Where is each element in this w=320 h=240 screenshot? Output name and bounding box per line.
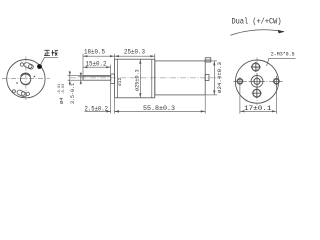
bottom dim extension gearbox face (114, 98, 116, 113)
left view upper screw hole (20, 63, 23, 66)
dim 15 extension line boss face (110, 65, 112, 74)
dim line 2.5 right stub (115, 110, 120, 112)
rotation direction arc arrow (231, 30, 285, 35)
bottom dim extension motor rear (204, 95, 206, 113)
left view gearbox outline circle (7, 59, 45, 97)
dim line 15 (83, 66, 111, 68)
dim line flat 3.5 (80, 73, 82, 85)
arrows dim 17 (240, 110, 277, 112)
arrows dim 2.5 (107, 110, 119, 112)
bottom dim extension boss (110, 84, 112, 114)
left view upper slot (23, 62, 34, 70)
right view left M3 hole (237, 79, 242, 84)
right view bottom bolt circle (253, 89, 261, 97)
left view small dot lower left (16, 82, 18, 84)
dim 17 extension lines (239, 85, 241, 114)
right view right M3 cross (272, 76, 280, 87)
dim 25 extension line motor face (154, 54, 156, 61)
left view centerline horizontal (2, 78, 50, 80)
right view centerline vertical (256, 58, 258, 106)
svg-text:25±0.3: 25±0.3 (124, 49, 145, 56)
dim line phi4 (69, 71, 71, 86)
right view centerline horizontal (233, 80, 284, 82)
shaft flat line (83, 75, 111, 77)
left view lower right screw hole (26, 92, 29, 95)
svg-text:3.5-0.1: 3.5-0.1 (70, 83, 76, 104)
boss outline (111, 74, 115, 84)
arrows phi24.4 (213, 61, 215, 95)
right view right M3 hole (274, 79, 279, 84)
svg-text:ø4: ø4 (58, 97, 65, 104)
left view small dot upper right (34, 76, 36, 78)
dim 18 extension line shaft tip (82, 54, 84, 75)
right view top bolt cross (251, 62, 261, 72)
svg-text:ø24.4±0.3: ø24.4±0.3 (217, 62, 223, 93)
right view center shaft inner circle (254, 78, 260, 84)
dim line 18 (83, 55, 115, 57)
gearbox front plate line (117, 59, 119, 98)
right view center shaft outer circle (251, 75, 263, 87)
dim phi25 line inside gearbox (139, 59, 141, 98)
svg-text:ø25±0.3: ø25±0.3 (135, 69, 141, 91)
motor terminal tab mid line (205, 59, 211, 61)
motor rear boss (205, 75, 209, 81)
svg-text:-0.03: -0.03 (62, 84, 66, 95)
arrows phi4 (69, 72, 71, 85)
left view lower slot (16, 89, 27, 97)
right view center cross (249, 73, 265, 89)
left view upper slot circle (28, 65, 32, 69)
dim 18 extension line gearbox face (114, 54, 116, 59)
arrows dim 55.8 (115, 110, 206, 112)
left view lower screw hole (12, 90, 15, 93)
svg-text:55.8±0.3: 55.8±0.3 (143, 105, 175, 112)
left view lower slot circle (21, 92, 25, 96)
svg-text:2.5±0.2: 2.5±0.2 (85, 105, 109, 112)
dim line 2.5 leader (85, 110, 111, 112)
svg-text:17±0.1: 17±0.1 (244, 105, 272, 112)
left view center hub circle (20, 74, 30, 84)
label 2-M3 leader (267, 58, 296, 66)
positive terminal dot (37, 64, 42, 69)
svg-text:15±0.2: 15±0.2 (86, 61, 107, 68)
dim line 17 (240, 110, 277, 112)
arrows phi25 (139, 59, 141, 98)
motor terminal tab (205, 58, 211, 62)
right view top bolt circle (252, 63, 260, 71)
arrows flat 3.5 (80, 73, 82, 84)
dim phi4 extension lines (68, 75, 83, 77)
flat extension line (78, 75, 82, 77)
left view centerline vertical (25, 57, 27, 101)
arrows top dims (83, 55, 155, 57)
side view centerline (70, 77, 222, 79)
dim line 55.8 (115, 110, 206, 112)
svg-text:Dual (+/+CW): Dual (+/+CW) (232, 16, 282, 26)
right view bottom bolt cross (252, 88, 262, 98)
positive terminal leader line (40, 57, 58, 66)
right view motor outline circle (235, 60, 278, 103)
dim phi24.4 extension lines (206, 60, 217, 62)
label positive terminal (44, 50, 58, 56)
svg-text:ø12: ø12 (117, 77, 123, 86)
right view left M3 cross (236, 77, 244, 85)
dim line phi24.4 (213, 61, 215, 95)
gearbox rear joint line (151, 59, 153, 98)
left view hub bottom thicker arc (21, 82, 30, 84)
arrows dim 15 (83, 66, 111, 68)
motor outline (155, 61, 205, 95)
left view hub D-flat thick top arc (21, 73, 30, 76)
dim line 25 (115, 55, 155, 57)
svg-text:18±0.5: 18±0.5 (84, 49, 105, 56)
svg-text:2-M3*0.5: 2-M3*0.5 (271, 50, 295, 57)
gearbox outline (115, 59, 155, 98)
shaft outline (83, 76, 111, 81)
